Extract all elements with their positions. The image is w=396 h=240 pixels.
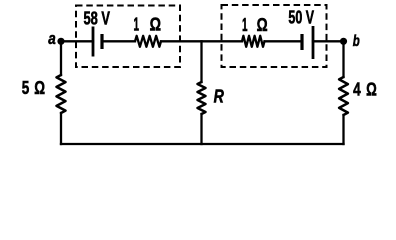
svg-text:1: 1 — [134, 15, 140, 35]
svg-text:Ω: Ω — [34, 78, 45, 98]
svg-text:b: b — [353, 33, 360, 50]
svg-text:Ω: Ω — [150, 15, 161, 35]
svg-text:Ω: Ω — [257, 15, 268, 35]
svg-text:4: 4 — [353, 80, 361, 100]
svg-text:Ω: Ω — [366, 80, 377, 100]
svg-text:a: a — [48, 29, 56, 48]
svg-text:50 V: 50 V — [288, 8, 314, 28]
svg-text:1: 1 — [242, 15, 248, 35]
svg-text:R: R — [214, 86, 224, 106]
svg-text:5: 5 — [22, 78, 30, 98]
svg-text:58 V: 58 V — [84, 9, 111, 29]
